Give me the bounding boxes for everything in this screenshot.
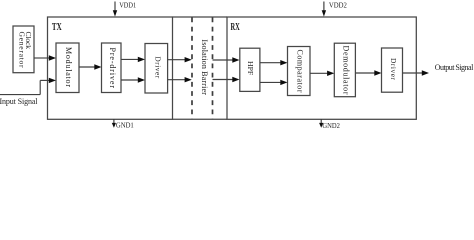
GND1 ground arrow	[113, 119, 115, 124]
svg-text:Pre-driver: Pre-driver	[108, 48, 117, 89]
svg-text:Isolation Barrier: Isolation Barrier	[200, 39, 209, 95]
svg-text:VDD1: VDD1	[119, 0, 136, 9]
svg-text:RX: RX	[231, 22, 241, 33]
HPF box	[240, 48, 260, 91]
wire HPF to comparator lower	[260, 81, 282, 83]
wire pre-driver to driver upper	[121, 58, 139, 60]
wire isolation barrier to HPF lower	[213, 79, 234, 81]
clock generator label	[17, 32, 33, 68]
wire clock generator to modulator	[34, 57, 50, 59]
modulator box	[56, 43, 79, 93]
wire driver to isolation barrier upper	[168, 59, 186, 61]
wire bottom connector between TX and RX	[173, 118, 228, 120]
svg-text:GND2: GND2	[322, 121, 340, 130]
wire demodulator to driver (RX)	[355, 72, 375, 74]
svg-text:HPF: HPF	[246, 61, 255, 75]
svg-text:GND1: GND1	[116, 121, 134, 130]
wire driver to isolation barrier lower	[168, 79, 186, 81]
svg-text:Driver: Driver	[389, 58, 398, 81]
wire top connector between TX and RX	[173, 16, 228, 18]
driver (RX) box	[382, 48, 403, 92]
svg-text:Modulator: Modulator	[64, 47, 73, 87]
wire isolation barrier to HPF upper	[213, 59, 234, 61]
isolation barrier dashed line right	[212, 18, 214, 120]
svg-text:Comparator: Comparator	[295, 50, 304, 93]
svg-text:Demodulator: Demodulator	[341, 46, 350, 95]
demodulator box	[334, 43, 355, 96]
output signal wire	[403, 72, 424, 74]
driver (TX) box	[145, 44, 168, 94]
GND2 ground arrow	[320, 119, 322, 124]
svg-text:Generator: Generator	[17, 32, 26, 68]
RX box	[227, 17, 416, 119]
svg-text:TX: TX	[52, 22, 62, 33]
svg-text:VDD2: VDD2	[329, 0, 347, 9]
pre-driver box	[102, 43, 122, 93]
svg-text:Input Signal: Input Signal	[0, 97, 38, 106]
VDD2 supply arrow	[323, 2, 325, 13]
clock generator U1 box	[13, 26, 34, 73]
input signal wire	[0, 94, 40, 96]
isolation barrier dashed line left	[191, 18, 193, 120]
VDD1 supply arrow	[114, 2, 116, 13]
comparator box	[288, 47, 311, 96]
svg-text:Output Signal: Output Signal	[435, 63, 474, 72]
wire pre-driver to driver lower	[121, 79, 139, 81]
svg-text:Driver: Driver	[154, 56, 163, 78]
wire HPF to comparator upper	[260, 62, 282, 64]
TX box	[48, 17, 173, 119]
wire modulator to pre-driver	[79, 66, 96, 68]
wire comparator to demodulator	[310, 72, 328, 74]
